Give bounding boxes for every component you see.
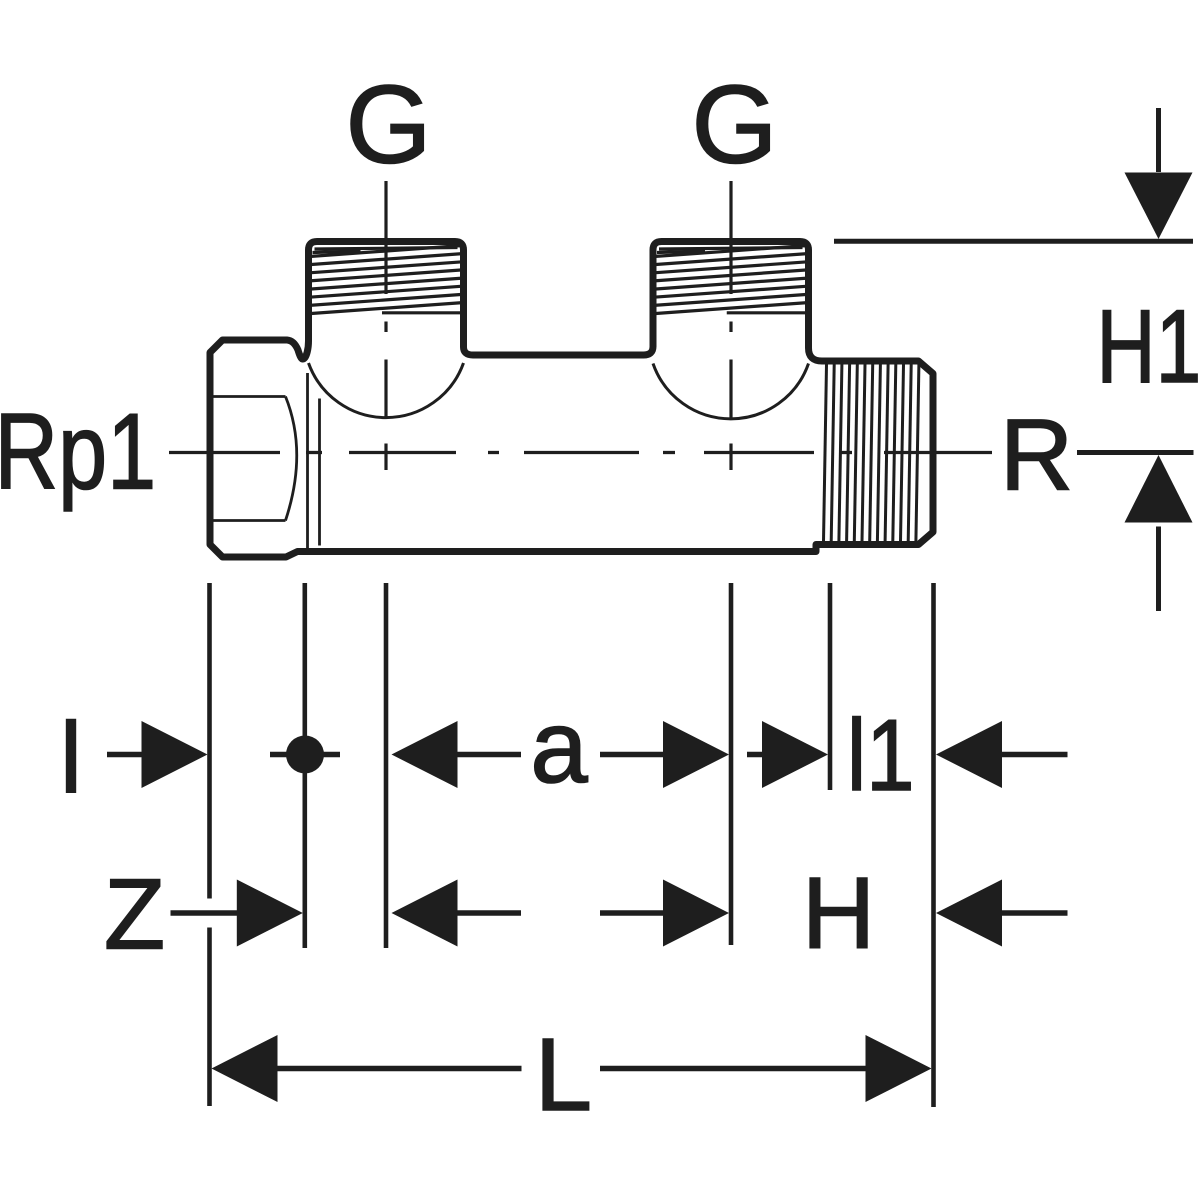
dimension row 3: L bbox=[275, 1066, 866, 1071]
branch G2 vertical centerline bbox=[729, 181, 732, 470]
svg-text:G: G bbox=[345, 64, 431, 187]
branch G1 vertical centerline bbox=[384, 181, 387, 470]
thread hatching branch G2 bbox=[654, 246, 808, 314]
svg-text:a: a bbox=[530, 689, 588, 804]
H1 reference line top right bbox=[834, 239, 1193, 244]
R dimension line right bbox=[1077, 450, 1194, 455]
right male thread R hatching bbox=[824, 365, 919, 542]
label Rp1 bbox=[0, 391, 156, 511]
label l1 bbox=[847, 699, 915, 811]
H1 down arrow bbox=[1156, 108, 1161, 172]
svg-text:G: G bbox=[691, 64, 777, 187]
svg-text:Rp1: Rp1 bbox=[0, 391, 156, 511]
H1 up arrow bbox=[1125, 455, 1193, 523]
extension lines below body bbox=[210, 583, 934, 1107]
thread hatching branch G1 bbox=[310, 246, 463, 314]
manifold body outline bbox=[210, 242, 933, 558]
svg-text:R: R bbox=[1000, 398, 1073, 512]
label H1 bbox=[1096, 288, 1200, 405]
branch G2 intersection arc bbox=[653, 364, 809, 419]
hex nut facet lines bbox=[212, 397, 297, 521]
nut-body joint lines bbox=[308, 373, 320, 548]
svg-text:l: l bbox=[60, 702, 82, 814]
branch G1 intersection arc bbox=[309, 363, 464, 418]
svg-text:L: L bbox=[535, 1017, 592, 1132]
dimension row 2: Z, H bbox=[171, 910, 1068, 915]
svg-text:l1: l1 bbox=[847, 699, 915, 811]
dimension row 1: l, a, l1 bbox=[107, 752, 1068, 757]
svg-text:Z: Z bbox=[104, 859, 165, 971]
svg-text:H: H bbox=[802, 856, 875, 970]
horizontal centerline bbox=[169, 451, 992, 454]
svg-text:H1: H1 bbox=[1096, 288, 1200, 405]
